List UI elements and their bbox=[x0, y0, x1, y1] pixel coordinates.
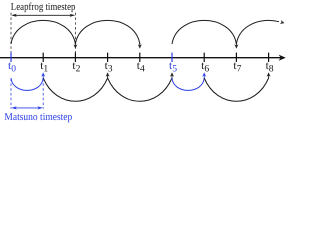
leapfrog arc t3 to t5 (bottom) bbox=[108, 78, 172, 101]
dimension dashed line at t2 (top) bbox=[74, 13, 76, 53]
timeline arrowhead (right) bbox=[279, 55, 286, 61]
arrowhead at t3 (up) bbox=[107, 75, 109, 78]
svg-text:Leapfrog timestep: Leapfrog timestep bbox=[11, 2, 76, 13]
tick t8 bbox=[268, 53, 270, 62]
matsuno dashed line at t0 (blue) bbox=[10, 79, 12, 109]
arrowhead at t4 (down) bbox=[139, 43, 141, 46]
matsuno dashed line at t1 (blue) bbox=[42, 79, 44, 109]
tick t6 bbox=[203, 53, 205, 62]
tick t0 (blue) bbox=[10, 53, 12, 62]
leapfrog arc t2 to t4 bbox=[75, 20, 139, 44]
arrowhead pointing right-down at clip edge bbox=[280, 20, 285, 24]
arrowhead at t2 (down) bbox=[74, 43, 76, 46]
leapfrog arc t6 to t8 (bottom) bbox=[204, 78, 268, 101]
leapfrog dimension double arrow bbox=[11, 14, 75, 17]
arrowhead at t5 (up) bbox=[171, 75, 173, 78]
svg-text:Matsuno timestep: Matsuno timestep bbox=[4, 112, 72, 123]
leapfrog arc t7 toward t9 (clipped at right edge) bbox=[236, 20, 279, 44]
arrowhead at t7 (down) bbox=[235, 43, 237, 46]
arrowhead at t6 (up) bbox=[203, 75, 205, 78]
arrowhead at t8 (up) bbox=[268, 75, 270, 78]
matsuno arc t0 to t1 (blue) bbox=[11, 78, 43, 90]
leapfrog arc t0 to t2 bbox=[11, 20, 75, 44]
matsuno dimension double arrow (blue) bbox=[11, 106, 43, 109]
tick t4 bbox=[139, 53, 141, 62]
matsuno arc t5 to t6 (blue) bbox=[172, 78, 204, 90]
timeline axis bbox=[0, 57, 283, 59]
tick t3 bbox=[107, 53, 109, 62]
dimension dashed line at t0 (top) bbox=[10, 13, 12, 53]
arrowhead at t1 (up) bbox=[42, 75, 44, 78]
tick t2 bbox=[74, 53, 76, 62]
tick t1 bbox=[42, 53, 44, 62]
tick t5 (blue) bbox=[171, 53, 173, 62]
leapfrog arc t5 to t7 bbox=[172, 20, 236, 44]
tick t7 bbox=[235, 53, 237, 62]
leapfrog arc t1 to t3 (bottom) bbox=[43, 78, 107, 101]
